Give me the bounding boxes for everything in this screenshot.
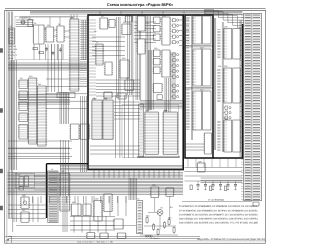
gate cluster verticals — [74, 216, 106, 233]
RAM IC D44 — [217, 68, 240, 103]
svg-text:VT1: VT1 — [160, 206, 163, 209]
power rail wires — [185, 167, 243, 181]
bus risers from box A — [94, 170, 179, 178]
resistor ovals right of B — [224, 106, 231, 119]
modulator wire 2 — [169, 196, 171, 219]
thick link line bottom right — [213, 157, 243, 159]
CRT controller D30 VG75 — [91, 97, 103, 139]
power connector X2 — [9, 28, 14, 44]
svg-text:D20 К155ИД3; D21–D28 К565РУ2;: D20 К155ИД3; D21–D28 К565РУ2; D29 К555КП… — [179, 218, 258, 221]
staircase wire 2 to connector — [204, 11, 244, 18]
verticals right of CPU to bus — [81, 96, 87, 172]
svg-text:D33: D33 — [224, 65, 227, 68]
address bus to video section — [8, 63, 88, 70]
resistor pack flat box — [57, 93, 75, 98]
DMA controller D31 IK57 — [102, 97, 114, 139]
svg-text:D24: D24 — [72, 201, 75, 204]
transistor VT1 — [157, 210, 163, 216]
bus crossing right of D31 — [114, 102, 140, 119]
gate IC D23 — [119, 60, 130, 78]
buffer IC D10 — [18, 91, 29, 100]
filter capacitor C24 — [227, 181, 229, 184]
svg-text:D22: D22 — [200, 14, 203, 17]
svg-text:X3: X3 — [137, 198, 139, 201]
gate IC D34 — [152, 84, 163, 93]
svg-text:D25: D25 — [95, 197, 98, 200]
keyboard row wires — [8, 148, 70, 158]
top bus wires — [30, 11, 242, 14]
gate cluster link wires — [70, 217, 115, 231]
long wire below D27 — [16, 225, 136, 227]
gate IC above D30 — [103, 92, 113, 98]
wires to tape section — [8, 205, 46, 218]
staircase wire 4 to connector — [204, 13, 244, 23]
svg-text:D27: D27 — [22, 209, 25, 212]
gate D49 — [82, 204, 92, 216]
vertical bundle center box A — [128, 16, 133, 95]
wire above notes — [182, 200, 252, 202]
svg-text:Схема компьютера «Радио-86РК»: Схема компьютера «Радио-86РК» — [107, 2, 174, 7]
resistor R11 — [153, 225, 155, 230]
svg-text:D34: D34 — [224, 117, 227, 120]
staircase wire 3 to connector — [204, 12, 244, 20]
verticals left of buffers — [10, 60, 16, 170]
modulator wire 1 — [154, 198, 156, 212]
capacitor C3 — [60, 48, 62, 50]
wires left of clock ICs — [16, 20, 34, 27]
resistor R12 — [168, 220, 170, 225]
small box right of label — [253, 202, 259, 206]
wires inside box A mid-left — [92, 37, 125, 55]
gate IC D34b — [157, 95, 162, 100]
bus driver D14 tall — [28, 78, 38, 144]
gate IC D26a — [19, 177, 24, 187]
shift register D36 — [162, 109, 178, 154]
latch IC D32.3 — [153, 34, 161, 40]
svg-text:D9: D9 — [20, 77, 22, 80]
resistor pack R ovals 2 — [171, 53, 179, 78]
svg-text:D13: D13 — [126, 77, 129, 80]
clock link wire 3 — [64, 30, 70, 32]
clock section down wires — [34, 44, 63, 60]
decoupling IC box — [196, 163, 206, 172]
counter IC D19 — [95, 44, 104, 65]
IC D2 trigger — [27, 20, 34, 27]
inner border line left — [6, 10, 8, 243]
scan artifact blob 3 — [0, 169, 3, 173]
filter capacitor C25 — [235, 181, 237, 184]
staircase wire 6 to connector — [204, 16, 244, 28]
connector X3 — [137, 201, 143, 234]
svg-text:D7: D7 — [96, 41, 98, 44]
wire loop around gates — [15, 173, 34, 188]
verticals between B and right RAM — [214, 18, 215, 150]
gate IC D24 — [124, 80, 135, 91]
clock link wire 2 — [54, 29, 57, 31]
latch IC D32.4 — [153, 50, 161, 56]
svg-text:D1: D1 — [34, 22, 36, 25]
inside box A upper link rows — [134, 22, 156, 42]
latch IC D32.2 — [153, 26, 161, 32]
svg-text:D18: D18 — [163, 14, 166, 17]
edge connector X1 — [241, 13, 262, 200]
svg-text:D8: D8 — [71, 16, 73, 19]
RAM IC D43 — [217, 29, 240, 60]
wires in RAM gap 1 — [186, 45, 213, 47]
filter capacitor C21 — [205, 181, 207, 184]
RAM IC D42 — [186, 91, 211, 130]
gate D48 — [70, 204, 82, 216]
CPU fanout verticals — [48, 44, 62, 92]
svg-text:D12: D12 — [122, 57, 125, 60]
lower crossing wires — [8, 141, 72, 157]
main address bus lines — [8, 173, 184, 195]
gate IC D16 — [99, 18, 109, 29]
gate D50 — [103, 194, 113, 212]
gate IC D18 — [121, 24, 132, 35]
video section thick box B — [185, 15, 213, 158]
inter-IC verticals box A mid — [136, 16, 141, 100]
bottom long wires — [8, 237, 200, 239]
resistor R10 — [146, 218, 148, 223]
tape section verticals — [33, 197, 38, 222]
svg-text:«Радио-86РК» с 32 Кбайтами ОЗУ: «Радио-86РК» с 32 Кбайтами ОЗУ (2-я пром… — [197, 238, 265, 241]
buffer IC D13 — [18, 125, 29, 140]
modulator wire 4 — [140, 234, 178, 236]
buffer IC D11 — [18, 102, 29, 111]
verticals inside right of box A — [171, 52, 175, 100]
scan artifact blob 2 — [0, 109, 3, 113]
gate IC D26c — [19, 187, 24, 191]
top bus drops into sections — [100, 11, 205, 15]
IC D46 — [165, 188, 175, 196]
clock gen D1 KR580GF24 — [33, 25, 46, 44]
bus drops to gate cluster — [78, 196, 126, 216]
latch bus verticals — [148, 50, 153, 110]
svg-text:СГ-ЦП ВЫВОДЫ: СГ-ЦП ВЫВОДЫ — [208, 199, 224, 202]
flipflop IC D27 — [20, 212, 30, 222]
buffer IC D37b — [136, 39, 146, 54]
resistor R2 clock — [39, 52, 44, 54]
svg-text:D17: D17 — [156, 13, 159, 16]
left low verticals — [14, 172, 16, 222]
clock link wire 1 — [44, 28, 46, 30]
timing IC in box B — [203, 133, 212, 154]
component reference labels — [10, 13, 228, 219]
svg-text:D14: D14 — [93, 97, 96, 100]
keyboard decoder IC — [59, 173, 71, 211]
flipflop IC D26 — [20, 197, 30, 208]
bus driver D15 tall — [37, 86, 48, 146]
filter capacitor C20 — [197, 181, 199, 184]
gate D52 — [86, 233, 96, 239]
inner border line bottom — [5, 240, 267, 242]
svg-text:D10: D10 — [29, 75, 32, 78]
CPU to box A wires — [80, 20, 89, 86]
rail drops from RAM — [188, 159, 236, 168]
svg-text:D7–D9 К589АП16; D10 КР580ВВ55;: D7–D9 К589АП16; D10 КР580ВВ55; D11 К573Р… — [179, 209, 258, 212]
transistor in D26 — [23, 201, 26, 204]
svg-text:D6: D6 — [123, 21, 125, 24]
resistor R21 — [210, 186, 212, 191]
svg-text:D29: D29 — [198, 160, 201, 163]
box A left edge entry stubs — [88, 20, 96, 95]
clock section boundary — [15, 16, 86, 59]
RAM to connector stubs — [240, 30, 243, 147]
scan artifact blob 1 — [0, 49, 3, 53]
wires below RAM box B — [186, 144, 204, 150]
quartz resonator B1 — [21, 20, 25, 24]
gate D54 — [117, 233, 127, 238]
svg-text:D22: D22 — [200, 46, 203, 49]
modulator wire 3 — [144, 225, 176, 227]
resistor R20 — [190, 185, 192, 190]
CPU fanout horizontals — [18, 95, 70, 105]
faint wires box A bottom — [90, 146, 140, 154]
svg-text:D23: D23 — [186, 88, 189, 91]
RAM group divider wires right — [222, 22, 223, 152]
clock top wire — [20, 16, 70, 18]
capacitor C1 — [46, 47, 48, 49]
svg-text:D32 К155ИЕ5; D33 К155ЛП5; D34,: D32 К155ИЕ5; D33 К155ЛП5; D34, D35 К155Л… — [179, 222, 258, 225]
svg-text:D16: D16 — [146, 22, 149, 25]
bus crossing in box A — [140, 101, 183, 109]
svg-text:D23: D23 — [17, 173, 20, 176]
buffer IC D37a — [136, 16, 146, 31]
gate IC D22 — [104, 62, 113, 75]
wires in RAM gap 2 — [186, 87, 213, 89]
capacitor C12 — [157, 230, 159, 235]
capacitor C2 — [52, 51, 54, 53]
inter-IC verticals box A — [117, 17, 120, 98]
title double rule — [5, 8, 266, 10]
corner stamp box — [5, 236, 12, 243]
latch IC D32.1 — [153, 17, 161, 23]
wires under D35 D36 — [137, 156, 180, 157]
verticals into bottom ICs — [63, 196, 67, 232]
resistor R14 — [163, 223, 165, 228]
bus stub into connector — [201, 178, 243, 182]
wires before connector — [240, 20, 241, 158]
svg-text:D31: D31 — [146, 109, 149, 112]
wires into keyboard block — [34, 176, 47, 190]
svg-text:D30: D30 — [224, 26, 227, 29]
shift bus verticals — [165, 78, 170, 112]
IC D3 counter — [45, 27, 55, 42]
thick connector-side line — [242, 24, 244, 159]
pin strip edge — [139, 104, 144, 157]
svg-text:выв. 14 D1–D14 — +5В; выв. 7 —: выв. 14 D1–D14 — +5В; выв. 7 — 0В — [77, 241, 113, 244]
drops from bus to bottom ICs — [24, 196, 126, 203]
gate D51 — [113, 219, 124, 229]
verticals keyboard to bus — [61, 140, 69, 196]
risers to bottom section — [129, 178, 137, 200]
connections A to B — [179, 20, 189, 46]
svg-text:D1 КР580ГФ24; D2 КР580ВМ80А; D: D1 КР580ГФ24; D2 КР580ВМ80А; D3 КР580ВК3… — [179, 205, 258, 208]
staircase wire 1 to connector — [204, 9, 244, 15]
IC D47 — [93, 200, 103, 221]
svg-text:D21: D21 — [186, 46, 189, 49]
svg-text:D5: D5 — [94, 30, 96, 33]
staircase wire 5 to connector — [204, 14, 244, 25]
resistor pack R ovals 1 — [171, 19, 179, 44]
svg-text:D26: D26 — [22, 194, 25, 197]
svg-text:D11: D11 — [38, 83, 41, 86]
left margin long wire — [12, 12, 14, 233]
resistor R22 — [225, 186, 227, 191]
port IC D20 — [69, 124, 80, 139]
port IC D21 — [79, 124, 90, 139]
outer border frame — [5, 10, 266, 243]
svg-text:D4: D4 — [101, 15, 103, 18]
scan artifact blob 4 — [0, 206, 3, 210]
svg-text:D24: D24 — [200, 88, 203, 91]
font ROM D35 — [144, 109, 159, 154]
left margin vertical wires — [8, 12, 11, 219]
clock gen inner divider — [38, 25, 40, 44]
svg-text:X4: X4 — [51, 168, 53, 171]
resistor pack R ovals 3 — [171, 84, 179, 98]
IC D45 — [150, 187, 160, 198]
resistor R13 — [173, 228, 175, 233]
gate IC D25 — [124, 16, 133, 22]
svg-text:D14 КР580ВГ75; D15 К155ТМ2; D1: D14 КР580ВГ75; D15 К155ТМ2; D16 КР580ВТ5… — [179, 213, 258, 216]
inside box A link rows — [96, 80, 140, 96]
buffer IC D12 — [18, 113, 29, 122]
gate IC above D31 — [117, 93, 127, 99]
gate IC D17 — [108, 20, 116, 28]
svg-text:D21: D21 — [187, 14, 190, 17]
video section thick box A — [88, 15, 183, 170]
RAM IC D41 — [186, 49, 211, 86]
gate IC D26b — [25, 176, 29, 187]
svg-text:D16: D16 — [104, 97, 107, 100]
char-gen section thin border — [122, 105, 179, 158]
verticals right of D31 — [116, 95, 134, 158]
svg-text:R12: R12 — [168, 216, 171, 219]
svg-text:X2: X2 — [10, 25, 12, 28]
svg-text:R10: R10 — [146, 214, 149, 217]
gate D53 — [99, 233, 109, 238]
verticals under CPU — [60, 92, 69, 124]
CPU D8 KR580VM80A — [69, 16, 80, 91]
bus left of latches — [146, 16, 151, 110]
resistor R1 clock — [33, 48, 38, 50]
RAM IC D40 — [186, 16, 211, 44]
RAM IC D45 — [217, 120, 240, 152]
counter IC D33b — [161, 50, 171, 77]
latch IC D32.5 — [153, 59, 161, 65]
svg-text:D19: D19 — [154, 47, 157, 50]
keyboard section thick border — [46, 164, 48, 218]
svg-text:D31: D31 — [218, 65, 221, 68]
inductor L1 symbol — [145, 235, 152, 237]
mid-left link wires — [46, 79, 88, 109]
filter capacitor C23 — [220, 181, 222, 184]
wires above main bus — [60, 165, 183, 170]
svg-text:D3: D3 — [58, 23, 60, 26]
counter IC D33a — [161, 14, 171, 45]
verticals right of CPU — [82, 20, 86, 60]
IC D4 counter — [56, 26, 65, 42]
RAM group divider wires box B — [192, 16, 193, 140]
wires above CPU — [71, 15, 77, 20]
svg-text:D32: D32 — [164, 109, 167, 112]
svg-text:D33: D33 — [152, 184, 155, 187]
svg-text:D20: D20 — [61, 170, 64, 173]
buffer IC D9 — [18, 80, 29, 89]
latch IC D32.6 — [153, 67, 161, 73]
filter capacitor C22 — [212, 181, 214, 184]
keyboard connector strip — [48, 171, 58, 223]
svg-text:D2: D2 — [47, 24, 49, 27]
